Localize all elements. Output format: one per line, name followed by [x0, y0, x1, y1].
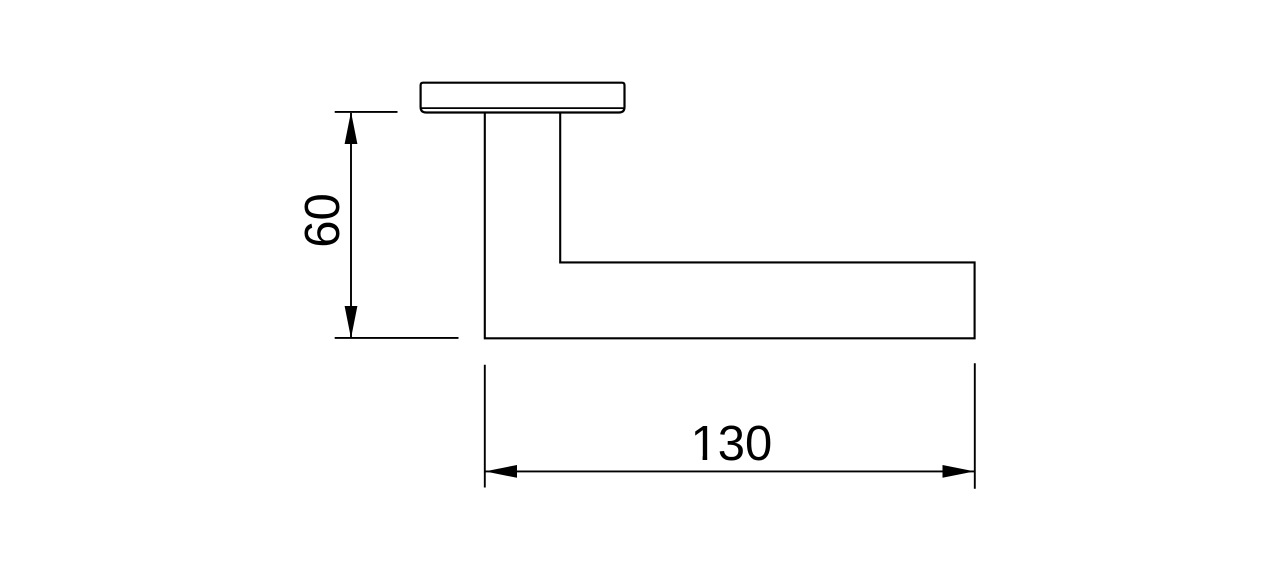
dimension 60: upper arrowhead — [345, 112, 358, 144]
dimension 130: right extension line — [974, 363, 976, 489]
dimension 130: right arrowhead — [943, 465, 975, 478]
svg-text:60: 60 — [296, 193, 350, 248]
dimension 130: value label — [691, 417, 773, 471]
dimension 60: lower arrowhead — [345, 306, 358, 338]
rosette outline — [421, 83, 625, 113]
lever handle profile — [485, 113, 975, 338]
dimension 130: left extension line — [484, 365, 486, 488]
dimension 130: left arrowhead — [485, 465, 517, 478]
dimension 60: dimension line — [350, 113, 352, 338]
rosette face line — [421, 107, 624, 109]
svg-text:130: 130 — [691, 417, 773, 471]
dimension 60: bottom extension line — [335, 337, 459, 339]
dimension 60: top extension line — [335, 111, 398, 113]
dimension 130: dimension line — [485, 470, 975, 472]
